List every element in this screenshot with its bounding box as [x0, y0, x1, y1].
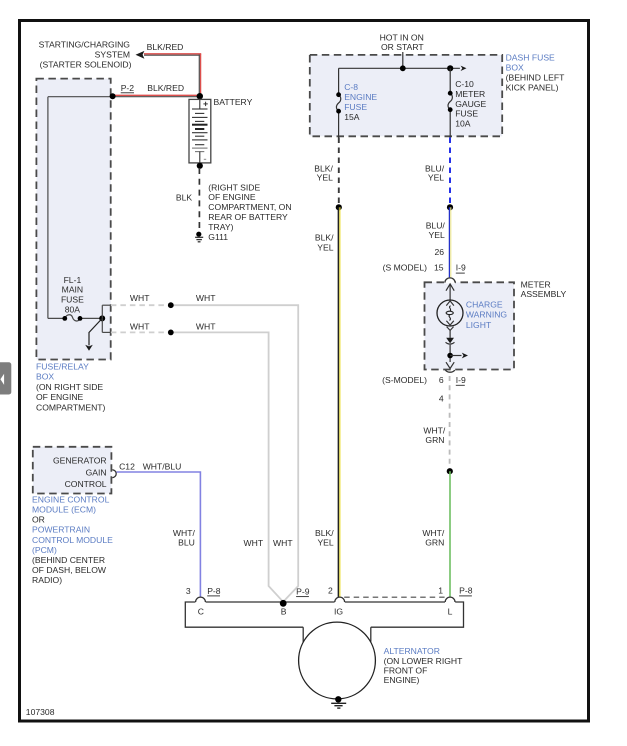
svg-text:WHT: WHT [196, 321, 216, 331]
svg-text:FUSE: FUSE [61, 294, 84, 304]
svg-text:OF ENGINE: OF ENGINE [208, 192, 256, 202]
svg-text:ALTERNATOR: ALTERNATOR [384, 646, 440, 656]
svg-text:YEL: YEL [317, 173, 333, 183]
svg-text:FUSE/RELAY: FUSE/RELAY [36, 362, 89, 372]
svg-text:GENERATOR: GENERATOR [53, 456, 107, 466]
svg-text:P-9: P-9 [296, 586, 310, 596]
svg-text:METER: METER [521, 279, 551, 289]
svg-text:OR START: OR START [381, 42, 424, 52]
svg-text:(S-MODEL): (S-MODEL) [382, 375, 427, 385]
svg-text:WHT/BLU: WHT/BLU [143, 462, 182, 472]
svg-text:(ON LOWER RIGHT: (ON LOWER RIGHT [384, 656, 464, 666]
svg-text:BLK/RED: BLK/RED [147, 83, 184, 93]
svg-text:ENGINE: ENGINE [344, 92, 377, 102]
svg-text:COMPARTMENT): COMPARTMENT) [36, 402, 106, 412]
svg-text:ENGINE CONTROL: ENGINE CONTROL [32, 494, 110, 504]
svg-text:WHT/: WHT/ [423, 426, 446, 436]
svg-text:(BEHIND CENTER: (BEHIND CENTER [32, 555, 105, 565]
svg-text:BOX: BOX [36, 372, 54, 382]
svg-text:(PCM): (PCM) [32, 545, 57, 555]
svg-text:DASH FUSE: DASH FUSE [506, 52, 555, 62]
svg-text:GRN: GRN [425, 435, 444, 445]
svg-text:WHT/: WHT/ [422, 528, 445, 538]
svg-text:WHT: WHT [273, 538, 293, 548]
svg-text:RADIO): RADIO) [32, 575, 62, 585]
svg-text:15: 15 [434, 263, 444, 273]
svg-text:FL-1: FL-1 [64, 275, 82, 285]
svg-text:C-10: C-10 [455, 79, 474, 89]
svg-text:(STARTER SOLENOID): (STARTER SOLENOID) [40, 59, 132, 69]
svg-text:WHT: WHT [130, 293, 150, 303]
svg-text:107308: 107308 [26, 707, 55, 717]
svg-text:METER: METER [455, 89, 485, 99]
svg-text:(ON RIGHT SIDE: (ON RIGHT SIDE [36, 382, 103, 392]
svg-text:BATTERY: BATTERY [214, 97, 253, 107]
svg-text:MAIN: MAIN [62, 284, 83, 294]
svg-text:(RIGHT SIDE: (RIGHT SIDE [208, 182, 260, 192]
svg-text:YEL: YEL [317, 537, 333, 547]
svg-text:SYSTEM: SYSTEM [95, 50, 130, 60]
svg-text:80A: 80A [65, 304, 81, 314]
svg-text:CONTROL: CONTROL [65, 479, 107, 489]
svg-text:FUSE: FUSE [344, 102, 367, 112]
svg-text:15A: 15A [344, 112, 360, 122]
svg-text:BLK/: BLK/ [315, 233, 334, 243]
svg-text:YEL: YEL [429, 230, 445, 240]
svg-text:WARNING: WARNING [466, 310, 508, 320]
svg-text:BLK/RED: BLK/RED [147, 42, 184, 52]
svg-text:BLU/: BLU/ [426, 221, 446, 231]
svg-text:BOX: BOX [506, 62, 524, 72]
svg-text:WHT: WHT [196, 293, 216, 303]
svg-text:(S MODEL): (S MODEL) [383, 263, 428, 273]
svg-text:GAIN: GAIN [86, 467, 107, 477]
svg-text:(BEHIND LEFT: (BEHIND LEFT [506, 72, 565, 82]
svg-text:BLK: BLK [176, 193, 193, 203]
svg-text:KICK PANEL): KICK PANEL) [506, 82, 559, 92]
svg-text:IG: IG [334, 607, 343, 617]
svg-text:STARTING/CHARGING: STARTING/CHARGING [39, 40, 131, 50]
svg-text:CONTROL MODULE: CONTROL MODULE [32, 535, 113, 545]
svg-text:LIGHT: LIGHT [466, 320, 492, 330]
svg-text:REAR OF BATTERY: REAR OF BATTERY [208, 212, 288, 222]
svg-text:YEL: YEL [428, 173, 444, 183]
svg-text:FUSE: FUSE [455, 109, 478, 119]
svg-text:I-9: I-9 [456, 263, 466, 273]
svg-text:L: L [448, 607, 453, 617]
svg-text:BLK/: BLK/ [315, 528, 334, 538]
svg-text:YEL: YEL [317, 243, 333, 253]
svg-text:POWERTRAIN: POWERTRAIN [32, 525, 90, 535]
svg-text:6: 6 [439, 375, 444, 385]
svg-text:ASSEMBLY: ASSEMBLY [521, 289, 567, 299]
svg-text:ENGINE): ENGINE) [384, 675, 420, 685]
svg-text:OF ENGINE: OF ENGINE [36, 392, 84, 402]
svg-text:CHARGE: CHARGE [466, 300, 503, 310]
svg-text:I-9: I-9 [456, 375, 466, 385]
svg-text:WHT: WHT [244, 538, 264, 548]
svg-text:C: C [198, 607, 204, 617]
svg-text:BLU: BLU [178, 537, 195, 547]
svg-text:GAUGE: GAUGE [455, 99, 486, 109]
svg-text:G111: G111 [208, 232, 228, 242]
svg-text:B: B [281, 607, 287, 617]
svg-text:COMPARTMENT, ON: COMPARTMENT, ON [208, 202, 291, 212]
svg-text:MODULE (ECM): MODULE (ECM) [32, 505, 96, 515]
svg-text:C12: C12 [119, 462, 135, 472]
svg-text:P-8: P-8 [459, 586, 473, 596]
svg-text:3: 3 [186, 586, 191, 596]
svg-text:OF DASH, BELOW: OF DASH, BELOW [32, 565, 107, 575]
svg-text:4: 4 [439, 394, 444, 404]
svg-text:1: 1 [438, 586, 443, 596]
svg-text:GRN: GRN [425, 537, 444, 547]
svg-text:2: 2 [328, 586, 333, 596]
svg-text:WHT: WHT [130, 321, 150, 331]
svg-text:26: 26 [434, 247, 444, 257]
svg-text:TRAY): TRAY) [208, 222, 233, 232]
svg-text:HOT IN ON: HOT IN ON [380, 33, 424, 43]
svg-text:10A: 10A [455, 118, 471, 128]
svg-text:P-2: P-2 [121, 83, 135, 93]
svg-text:WHT/: WHT/ [173, 528, 196, 538]
svg-text:C-8: C-8 [344, 82, 358, 92]
svg-text:OR: OR [32, 515, 45, 525]
svg-text:FRONT OF: FRONT OF [384, 665, 428, 675]
svg-text:P-8: P-8 [207, 586, 221, 596]
